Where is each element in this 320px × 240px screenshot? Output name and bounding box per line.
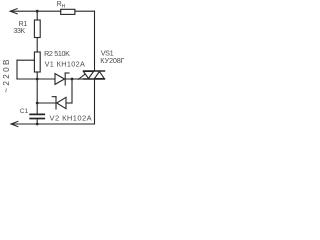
wire V2 to riser	[66, 102, 72, 104]
svg-text:C1: C1	[20, 108, 29, 115]
wire C1 bottom stub	[36, 119, 38, 124]
wire V1 line left	[17, 78, 55, 80]
node C1 bottom	[36, 123, 39, 126]
resistor R2	[34, 52, 40, 72]
wire right vertical to triac anode	[94, 11, 96, 71]
dinistor V2	[52, 97, 66, 109]
wire riser to gate line	[71, 79, 73, 103]
wire Rn to corner	[75, 10, 95, 12]
wire C1 top vertical	[36, 79, 38, 114]
svg-text:33K: 33K	[14, 28, 26, 35]
wire V2 line left	[37, 102, 56, 104]
wire left vertical	[16, 60, 18, 79]
resistor Rn	[61, 9, 75, 14]
node V2 left	[36, 102, 39, 105]
dinistor V1	[55, 73, 69, 85]
capacitor C1	[30, 114, 44, 118]
triac VS1	[84, 71, 105, 79]
node R1 top	[36, 10, 39, 13]
resistor R1	[34, 20, 40, 38]
wire tap to R2 left	[17, 59, 34, 61]
wire V1 to gate junction	[65, 78, 84, 80]
wire triac cathode vertical	[94, 79, 96, 124]
wire top horizontal	[10, 10, 60, 12]
svg-text:V1 КН102А: V1 КН102А	[45, 59, 86, 68]
svg-text:~220В: ~220В	[2, 57, 11, 93]
wire gate diagonal	[78, 71, 89, 79]
svg-text:R2 510K: R2 510K	[44, 50, 70, 58]
wire R2 bottom stub	[36, 72, 38, 79]
node gate junction	[71, 78, 74, 81]
node R2 bottom	[36, 78, 39, 81]
svg-text:КУ208Г: КУ208Г	[100, 56, 124, 65]
arrow mains terminal top	[10, 9, 17, 14]
wire R1 top stub	[36, 11, 38, 20]
svg-text:V2 КН102А: V2 КН102А	[50, 113, 93, 122]
wire bottom horizontal	[11, 123, 95, 125]
wire R1 to R2	[36, 38, 38, 53]
arrow mains terminal bottom	[11, 121, 18, 126]
